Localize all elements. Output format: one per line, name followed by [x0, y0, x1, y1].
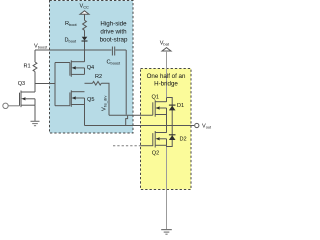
svg-text:R2: R2 — [95, 74, 102, 80]
svg-text:Vbat: Vbat — [160, 41, 170, 47]
svg-text:Vout: Vout — [202, 124, 212, 130]
svg-text:Rboot: Rboot — [65, 21, 78, 27]
svg-text:Vboost: Vboost — [34, 44, 48, 50]
svg-text:Q5: Q5 — [87, 97, 94, 103]
svg-text:D1: D1 — [177, 103, 184, 109]
svg-text:Q1: Q1 — [152, 95, 159, 101]
svg-text:Cboost: Cboost — [107, 60, 121, 66]
svg-text:Dboot: Dboot — [65, 38, 78, 44]
svg-text:VCC: VCC — [80, 4, 90, 10]
svg-text:R1: R1 — [24, 64, 31, 70]
svg-text:High-side: High-side — [100, 21, 127, 28]
svg-text:One half of an: One half of an — [147, 73, 186, 80]
svg-text:Q3: Q3 — [18, 81, 25, 87]
svg-text:D2: D2 — [180, 136, 187, 142]
svg-text:boot-strap: boot-strap — [100, 37, 128, 44]
svg-text:drive with: drive with — [100, 29, 127, 36]
svg-text:H-bridge: H-bridge — [154, 81, 178, 88]
svg-text:Vhs_drv: Vhs_drv — [102, 96, 108, 111]
svg-text:Q4: Q4 — [87, 65, 94, 71]
svg-text:Q2: Q2 — [152, 151, 159, 157]
